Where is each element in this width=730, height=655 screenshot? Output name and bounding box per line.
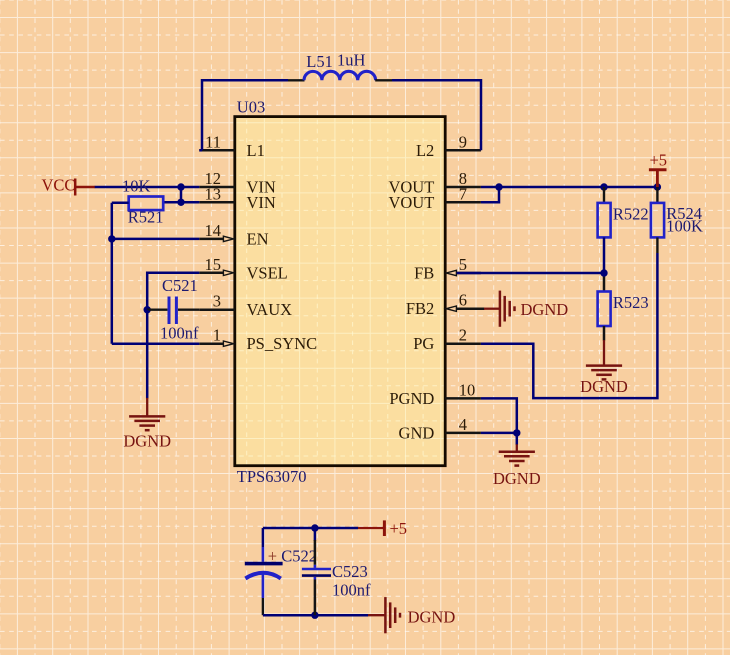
pin 9 L2 — [416, 132, 481, 160]
svg-text:PGND: PGND — [389, 389, 434, 408]
svg-text:6: 6 — [459, 291, 467, 310]
wire C521 right lead to pin 3 — [178, 309, 199, 311]
power port VCC — [42, 176, 96, 196]
pin 15 VSEL — [199, 255, 287, 283]
wire C522 bottom lead — [262, 598, 264, 615]
ground DGND left — [129, 398, 165, 430]
wire PGND down — [481, 398, 517, 433]
pin 14 EN — [199, 221, 268, 249]
svg-text:100nf: 100nf — [332, 581, 371, 600]
svg-text:10K: 10K — [122, 177, 151, 196]
pin 6 FB2 — [406, 291, 485, 319]
svg-text:5: 5 — [459, 255, 467, 274]
svg-text:GND: GND — [399, 423, 435, 442]
ground DGND under GND pin — [499, 444, 535, 465]
resistor R521 — [129, 197, 164, 211]
svg-text:R523: R523 — [613, 293, 649, 312]
capacitor C523 — [302, 540, 331, 580]
wire VOUT pin7 riser — [481, 187, 499, 202]
resistor R524 — [651, 203, 664, 238]
IC U03 TPS63070 body — [235, 117, 445, 466]
wire C522 top lead — [262, 528, 265, 547]
svg-text:VCC: VCC — [42, 176, 76, 195]
svg-text:EN: EN — [247, 229, 269, 248]
svg-text:9: 9 — [459, 132, 467, 151]
pin 11 L1 — [199, 132, 265, 160]
svg-text:L51: L51 — [306, 52, 333, 71]
svg-text:7: 7 — [459, 184, 467, 203]
wire VIN12 to VIN13 vertical — [180, 187, 183, 202]
svg-text:FB: FB — [414, 264, 434, 283]
wire FB junction to R523 top — [603, 273, 606, 292]
pin 13 VIN — [199, 184, 276, 212]
svg-text:DGND: DGND — [493, 469, 541, 488]
wire R522 bottom lead — [603, 237, 606, 273]
capacitor C522 polarized — [245, 547, 283, 598]
junction EN — [108, 235, 115, 242]
svg-text:1uH: 1uH — [337, 51, 366, 70]
pin 2 PG — [413, 326, 481, 354]
pin 4 GND — [399, 415, 481, 443]
svg-text:C523: C523 — [332, 562, 368, 581]
wire FB horizontal — [457, 272, 604, 275]
wire R524 top lead — [656, 187, 658, 203]
pin 1 PS_SYNC — [199, 326, 317, 354]
capacitor C521 — [169, 297, 176, 325]
wire R521 right to pin13 — [163, 201, 199, 204]
svg-text:+5: +5 — [650, 151, 668, 170]
svg-text:3: 3 — [213, 292, 221, 311]
wire PS_SYNC horizontal — [112, 342, 200, 345]
svg-text:U03: U03 — [237, 98, 265, 117]
pin 10 PGND — [389, 380, 481, 408]
wire R524 bottom lead — [656, 237, 658, 253]
svg-text:L1: L1 — [247, 141, 265, 160]
svg-text:2: 2 — [459, 326, 467, 345]
svg-text:+ C522: + C522 — [268, 547, 317, 566]
wire C521 left lead — [147, 309, 167, 311]
pin 5 FB — [414, 255, 481, 283]
wire R523 bottom — [603, 326, 606, 341]
svg-text:R522: R522 — [613, 205, 649, 224]
svg-text:DGND: DGND — [521, 300, 569, 319]
wire bottom bottom rail — [263, 614, 368, 617]
pin 7 VOUT — [388, 184, 480, 212]
junction C521 left — [144, 306, 151, 313]
junction GND — [513, 429, 520, 436]
inductor L51 right lead — [375, 79, 392, 81]
svg-text:R521: R521 — [128, 208, 164, 227]
junction VOUT R522 — [600, 183, 607, 190]
svg-text:15: 15 — [205, 255, 222, 274]
inductor L51 — [304, 71, 376, 80]
wire VCC to pin 12 — [95, 186, 200, 189]
svg-text:10: 10 — [459, 380, 476, 399]
ground DGND at FB2 (sideways) — [484, 291, 515, 327]
inductor L51 left lead — [288, 79, 305, 81]
svg-text:14: 14 — [205, 221, 222, 240]
wire bottom top rail — [263, 527, 358, 530]
wire EN horizontal — [112, 238, 200, 241]
junction bottom rail C523 — [311, 612, 318, 619]
svg-text:L2: L2 — [416, 141, 434, 160]
wire C523 bottom lead — [314, 580, 317, 616]
pin 3 VAUX — [199, 292, 292, 320]
wire EN/PS_SYNC vertical — [111, 203, 114, 344]
wire VOUT pin8 to R524 top — [481, 186, 658, 189]
junction VOUT riser — [495, 183, 502, 190]
svg-text:VOUT: VOUT — [388, 193, 434, 212]
wire stub join pin11 — [199, 149, 202, 152]
svg-text:DGND: DGND — [123, 432, 171, 451]
ground DGND bottom (sideways) — [368, 597, 400, 633]
wire stub join pin9 — [480, 149, 483, 152]
svg-text:DGND: DGND — [408, 608, 456, 627]
power +5 top — [649, 151, 667, 188]
svg-text:11: 11 — [205, 132, 221, 151]
pin 12 VIN — [199, 169, 276, 197]
svg-text:100K: 100K — [666, 217, 703, 236]
power +5 bottom — [358, 519, 407, 538]
junction top rail C523 — [311, 524, 318, 531]
wire VOUT to R522 top — [603, 187, 605, 203]
svg-text:TPS63070: TPS63070 — [237, 467, 307, 486]
wire L1 net (pin 11 to inductor) — [202, 80, 288, 150]
junction on VIN pin12 line — [177, 183, 184, 190]
wire R521 left — [112, 201, 129, 204]
ground DGND under R523 — [586, 340, 622, 379]
svg-text:VIN: VIN — [247, 193, 276, 212]
svg-text:DGND: DGND — [580, 377, 628, 396]
svg-text:FB2: FB2 — [406, 299, 434, 318]
svg-text:13: 13 — [205, 184, 222, 203]
svg-text:C521: C521 — [162, 276, 198, 295]
wire GND down to ground — [516, 433, 519, 445]
svg-text:VAUX: VAUX — [247, 300, 293, 319]
pin 8 VOUT — [388, 169, 480, 197]
resistor R523 — [598, 292, 611, 327]
junction on VIN pin13 line — [177, 199, 184, 206]
junction FB — [600, 269, 607, 276]
wire PG to R524 bottom — [481, 253, 658, 398]
junction VOUT R524 — [654, 183, 661, 190]
svg-text:PG: PG — [413, 334, 434, 353]
svg-text:100nf: 100nf — [160, 324, 199, 343]
svg-text:1: 1 — [213, 326, 221, 345]
svg-text:+5: +5 — [390, 519, 408, 538]
svg-text:VSEL: VSEL — [247, 263, 288, 282]
wire VSEL horizontal — [147, 273, 199, 310]
wire C523 top lead — [314, 528, 317, 541]
wire GND horizontal — [481, 432, 517, 435]
wire L2 net (inductor to pin 9) — [392, 80, 481, 150]
wire C521 junction down to ground — [146, 310, 149, 399]
svg-text:4: 4 — [459, 415, 467, 434]
svg-text:PS_SYNC: PS_SYNC — [247, 334, 318, 353]
resistor R522 — [598, 203, 611, 238]
